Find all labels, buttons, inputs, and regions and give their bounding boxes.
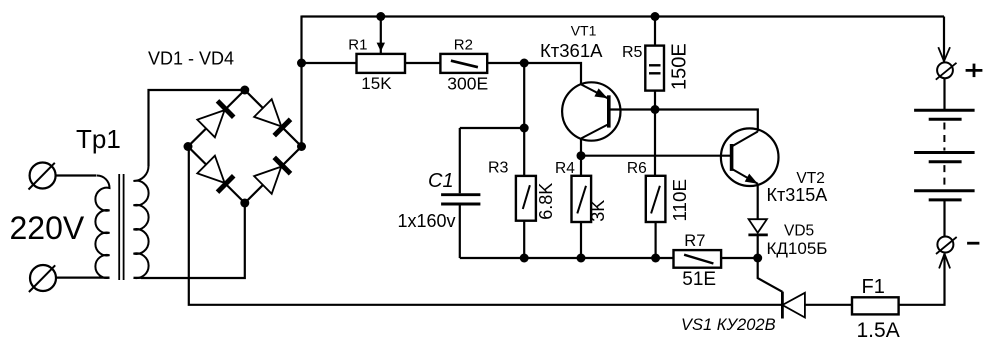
- node junction R3 bottom: [520, 254, 529, 263]
- power mark inside R2: [451, 61, 478, 67]
- svg-text:VD1 - VD4: VD1 - VD4: [148, 48, 234, 68]
- svg-text:F1: F1: [862, 276, 885, 298]
- transformer Tp1 secondary winding: [134, 166, 149, 278]
- svg-text:110E: 110E: [669, 179, 690, 221]
- svg-text:R1: R1: [348, 37, 367, 54]
- wire primary top: [56, 174, 97, 176]
- node junction R5 top on rail: [651, 12, 660, 21]
- plus sign: [966, 64, 983, 78]
- svg-text:3K: 3K: [588, 200, 608, 222]
- wire C1 top lead: [459, 128, 461, 193]
- svg-text:15K: 15K: [361, 74, 392, 93]
- node junction R4 bottom: [577, 254, 586, 263]
- svg-text:R2: R2: [454, 37, 473, 54]
- arrow to + clamp: [938, 47, 950, 61]
- capacitor C1 1x160v: [441, 195, 480, 204]
- terminal 220V bottom: [29, 265, 56, 292]
- label Tp1: [76, 124, 121, 154]
- resistor R3 6.8K: [516, 176, 536, 221]
- node junction R6 bottom: [651, 254, 660, 263]
- svg-text:6.8K: 6.8K: [536, 183, 556, 220]
- wire R3 bottom lead: [523, 221, 525, 258]
- wire R6 top lead: [654, 110, 656, 176]
- label R1: [348, 37, 367, 54]
- wire node to VT1 emitter: [524, 63, 581, 84]
- wire top positive rail: [302, 15, 945, 17]
- wire right vertical from bridge + node to top rail: [300, 16, 302, 147]
- wire VT1 collector row to VT2 base: [581, 155, 732, 157]
- svg-text:R3: R3: [488, 159, 509, 176]
- label R7: [684, 232, 705, 250]
- diode VD3 (left to bottom): [197, 156, 233, 192]
- value 1x160v: [398, 211, 456, 231]
- node junction VT1 collector / R4: [577, 151, 586, 160]
- wire R5 bottom lead: [654, 91, 656, 110]
- wire bridge top to transformer secondary: [149, 90, 245, 166]
- svg-text:VS1 КУ202В: VS1 КУ202В: [681, 316, 776, 334]
- wiper arrowhead: [377, 43, 385, 52]
- label R2: [454, 37, 473, 54]
- resistor R1 15K (variable): [357, 54, 406, 73]
- svg-text:R7: R7: [684, 232, 705, 250]
- label R4: [555, 160, 575, 177]
- label VT1: [571, 22, 597, 38]
- value 1.5A: [857, 319, 900, 342]
- transistor VT1 Кт361А (PNP): [562, 82, 620, 140]
- wire R1 wiper shaft: [380, 17, 382, 55]
- resistor R7 51E: [674, 250, 722, 268]
- minus sign: [967, 242, 979, 245]
- wire bridge frame: [188, 90, 302, 203]
- wire R6 bottom lead: [654, 222, 656, 258]
- node junction VT1 base / R5 / R6 / VT2 collector: [651, 105, 660, 114]
- node bridge left (-): [184, 142, 193, 151]
- terminal 220V top: [29, 163, 56, 190]
- value Кт361А: [540, 40, 603, 61]
- wire battery to - clamp: [943, 200, 945, 237]
- value 150E: [668, 43, 690, 90]
- wire C1 top horizontal: [460, 127, 524, 129]
- battery being charged: [914, 110, 975, 200]
- wire C1 bottom lead: [459, 205, 461, 258]
- svg-text:Кт361А: Кт361А: [540, 40, 603, 61]
- label 220V: [10, 210, 85, 246]
- diode VD4 (bottom to right): [254, 157, 290, 193]
- svg-text:VD5: VD5: [784, 223, 814, 240]
- svg-text:КД105Б: КД105Б: [767, 239, 828, 258]
- power mark inside R6: [651, 186, 660, 214]
- wire R1-R2: [405, 62, 440, 64]
- wire VT1 collector lead: [580, 139, 582, 176]
- svg-text:R4: R4: [555, 160, 575, 177]
- wire VD5 cathode lead: [757, 235, 759, 258]
- fuse F1 1.5A: [852, 297, 899, 314]
- transistor VT2 Кт315А (NPN): [721, 128, 779, 186]
- value 6.8K: [536, 183, 556, 220]
- wire R3 top lead: [523, 128, 525, 176]
- label C1: [428, 170, 454, 192]
- transformer Tp1 primary winding: [95, 176, 109, 278]
- node bridge right (+): [297, 142, 306, 151]
- wire F1 to battery negative: [899, 254, 945, 305]
- wire node down to C1/R3 node: [523, 63, 525, 128]
- node junction R2 right: [520, 59, 529, 68]
- label F1: [862, 276, 885, 298]
- transformer core: [119, 174, 123, 280]
- diode VD5 КД105Б: [748, 219, 767, 235]
- terminal + clamp: [936, 62, 957, 79]
- svg-text:1x160v: 1x160v: [398, 211, 456, 231]
- wire bottom bus: [460, 257, 674, 259]
- node junction wiper on top rail: [376, 12, 385, 21]
- wire R5 top lead: [654, 17, 656, 46]
- wire long negative wire from bridge: [189, 147, 782, 305]
- svg-text:220V: 220V: [10, 210, 85, 246]
- resistor R4 3K: [572, 176, 592, 222]
- wire VT1 base to VT2 collector corner: [610, 110, 758, 132]
- wire R1 left lead: [302, 62, 357, 64]
- label VS1 КУ202В: [681, 316, 776, 334]
- svg-text:C1: C1: [428, 170, 454, 192]
- value 300E: [447, 74, 488, 94]
- wire bridge bottom to secondary bottom: [141, 203, 245, 278]
- node bridge bottom (AC): [240, 199, 249, 208]
- svg-text:R6: R6: [627, 160, 647, 177]
- node junction VD5 cathode / R7 / gate: [753, 254, 762, 263]
- wire R7 right lead: [721, 257, 758, 259]
- power mark inside R3: [523, 185, 530, 209]
- wire R4 bottom lead: [580, 222, 582, 258]
- resistor R6 110E: [646, 176, 666, 222]
- wire secondary bottom: [134, 277, 142, 279]
- value 15K: [361, 74, 392, 93]
- diode VD1 (left to top): [197, 101, 233, 137]
- wire VT2 emitter lead: [757, 184, 759, 219]
- power mark inside R4: [577, 186, 586, 214]
- svg-text:1.5A: 1.5A: [857, 319, 900, 342]
- value КД105Б: [767, 239, 828, 258]
- value 51E: [682, 269, 716, 290]
- wire + clamp to battery: [943, 78, 945, 110]
- label VT2: [796, 170, 824, 187]
- wire VS1 anode to F1: [805, 304, 852, 306]
- node junction R1 left: [297, 59, 306, 68]
- svg-text:R5: R5: [622, 44, 643, 61]
- value 3K: [588, 200, 608, 222]
- wire primary bottom: [56, 277, 110, 279]
- label R6: [627, 160, 647, 177]
- label R3: [488, 159, 509, 176]
- arrow to - clamp: [939, 254, 950, 269]
- label R5: [622, 44, 643, 61]
- wire VS1 gate: [758, 258, 783, 292]
- svg-text:51E: 51E: [682, 269, 716, 290]
- value 110E: [669, 179, 690, 221]
- terminal - clamp: [936, 237, 957, 255]
- node bridge top (AC): [240, 86, 249, 95]
- resistor R5 150E: [645, 46, 664, 91]
- label VD1 - VD4: [148, 48, 234, 68]
- value Кт315А: [767, 185, 828, 205]
- node junction C1 top / R3 top: [520, 124, 529, 133]
- svg-text:Кт315А: Кт315А: [767, 185, 828, 205]
- wire R2 right lead to node: [487, 62, 524, 64]
- power marks inside R5: [649, 65, 661, 73]
- svg-text:300E: 300E: [447, 74, 488, 94]
- svg-text:150E: 150E: [668, 43, 690, 90]
- svg-text:Tp1: Tp1: [76, 124, 121, 154]
- svg-text:VT1: VT1: [571, 22, 597, 38]
- label VD5: [784, 223, 814, 240]
- thyristor VS1 КУ202В: [782, 292, 805, 319]
- diode VD2 (top to right): [254, 99, 290, 135]
- resistor R2 300E: [440, 54, 487, 73]
- power mark inside R7: [684, 255, 713, 264]
- wire top rail to + clamp arrow: [943, 17, 945, 62]
